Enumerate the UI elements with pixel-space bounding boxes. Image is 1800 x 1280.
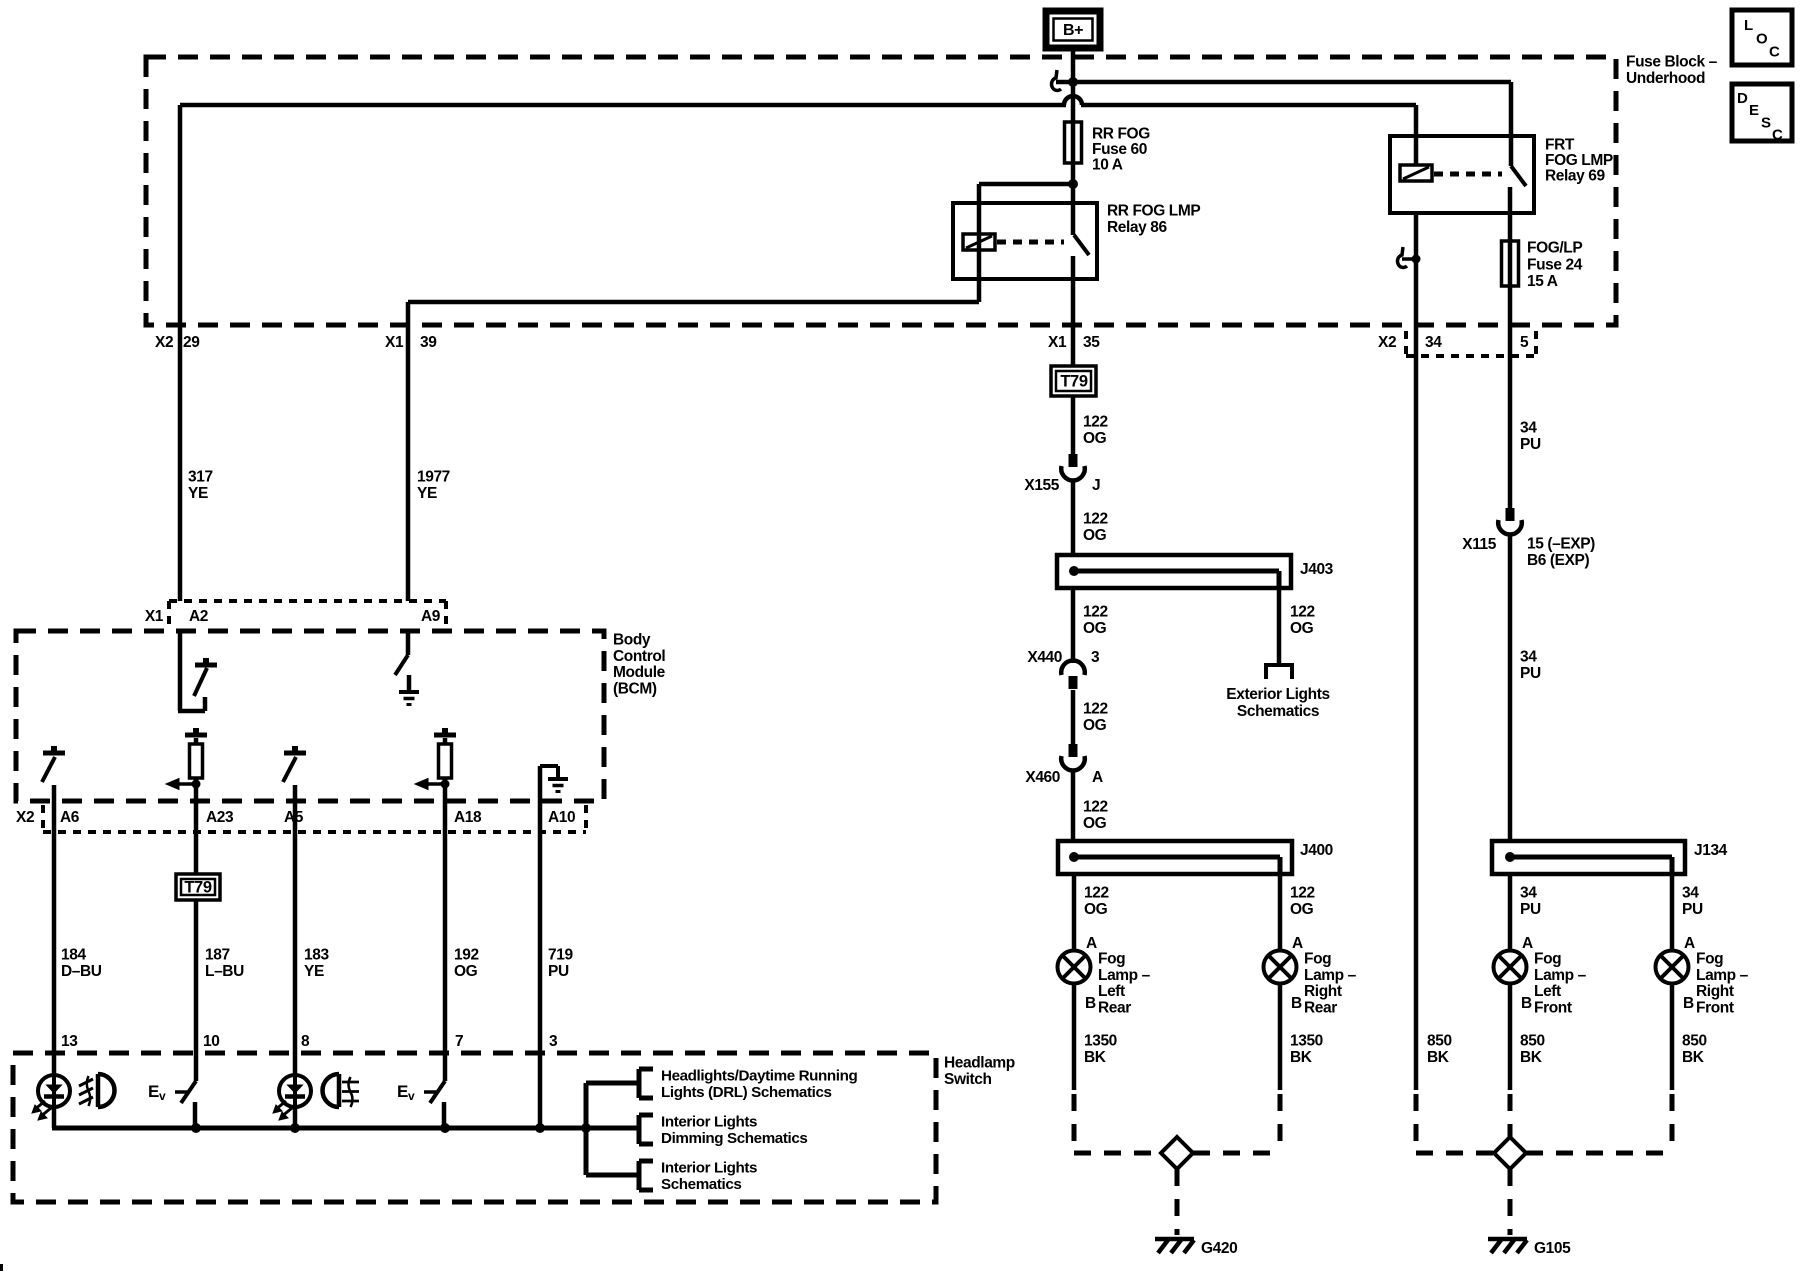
svg-text:A2: A2: [189, 608, 208, 625]
svg-text:29: 29: [183, 334, 200, 351]
svg-text:Lamp –: Lamp –: [1098, 967, 1151, 984]
svg-text:Left: Left: [1534, 983, 1561, 1000]
svg-text:34: 34: [1682, 885, 1699, 902]
svg-text:A: A: [1522, 935, 1533, 952]
svg-text:Exterior Lights: Exterior Lights: [1226, 686, 1329, 703]
svg-text:10 A: 10 A: [1092, 157, 1123, 174]
svg-text:RR FOG: RR FOG: [1092, 126, 1150, 143]
svg-text:PU: PU: [548, 963, 569, 980]
svg-text:Fuse 24: Fuse 24: [1527, 256, 1583, 273]
svg-text:D: D: [1737, 90, 1748, 107]
svg-text:13: 13: [61, 1033, 78, 1050]
svg-text:X1: X1: [385, 334, 404, 351]
svg-text:Fuse 60: Fuse 60: [1092, 141, 1147, 158]
svg-text:Dimming Schematics: Dimming Schematics: [661, 1130, 807, 1147]
svg-text:Fuse Block –: Fuse Block –: [1626, 54, 1718, 71]
svg-text:34: 34: [1520, 649, 1537, 666]
svg-text:L–BU: L–BU: [205, 963, 244, 980]
svg-text:E: E: [1749, 102, 1759, 119]
svg-text:OG: OG: [1290, 620, 1314, 637]
svg-text:T79: T79: [184, 879, 211, 897]
svg-text:RR FOG LMP: RR FOG LMP: [1107, 203, 1200, 220]
svg-text:Fog: Fog: [1534, 951, 1561, 968]
svg-text:Schematics: Schematics: [661, 1176, 741, 1193]
svg-text:184: 184: [61, 947, 86, 964]
svg-text:v: v: [159, 1089, 166, 1103]
svg-text:X2: X2: [1378, 334, 1396, 351]
svg-text:850: 850: [1682, 1033, 1707, 1050]
svg-text:122: 122: [1083, 701, 1108, 718]
svg-text:35: 35: [1083, 334, 1100, 351]
svg-text:317: 317: [188, 469, 213, 486]
svg-text:E: E: [397, 1082, 408, 1101]
svg-text:Body: Body: [613, 632, 651, 649]
svg-text:122: 122: [1083, 799, 1108, 816]
svg-text:1977: 1977: [417, 469, 450, 486]
svg-text:D–BU: D–BU: [61, 963, 102, 980]
svg-text:X1: X1: [145, 608, 164, 625]
svg-text:850: 850: [1520, 1033, 1545, 1050]
svg-text:A: A: [1684, 935, 1695, 952]
svg-text:FOG/LP: FOG/LP: [1527, 240, 1582, 257]
svg-text:YE: YE: [188, 485, 208, 502]
svg-text:PU: PU: [1520, 665, 1541, 682]
svg-text:BK: BK: [1682, 1049, 1705, 1066]
svg-text:YE: YE: [417, 485, 437, 502]
svg-text:Right: Right: [1696, 983, 1734, 1000]
svg-text:C: C: [1772, 127, 1783, 144]
svg-text:X440: X440: [1027, 649, 1062, 666]
svg-text:15 (–EXP): 15 (–EXP): [1527, 536, 1595, 553]
svg-text:192: 192: [454, 947, 479, 964]
svg-text:187: 187: [205, 947, 230, 964]
svg-text:BK: BK: [1290, 1049, 1313, 1066]
svg-text:Front: Front: [1696, 999, 1734, 1016]
svg-text:Interior Lights: Interior Lights: [661, 1114, 757, 1131]
svg-text:X155: X155: [1024, 477, 1059, 494]
svg-text:A18: A18: [454, 809, 482, 826]
svg-text:1350: 1350: [1084, 1033, 1117, 1050]
svg-text:Headlamp: Headlamp: [944, 1055, 1015, 1072]
svg-text:Headlights/Daytime Running: Headlights/Daytime Running: [661, 1068, 857, 1085]
svg-text:J134: J134: [1694, 842, 1728, 859]
svg-text:3: 3: [549, 1033, 558, 1050]
svg-text:183: 183: [304, 947, 329, 964]
svg-text:8: 8: [301, 1033, 310, 1050]
svg-text:YE: YE: [304, 963, 324, 980]
svg-text:A9: A9: [421, 608, 441, 625]
svg-text:Interior Lights: Interior Lights: [661, 1160, 757, 1177]
svg-text:OG: OG: [1083, 430, 1107, 447]
svg-text:10: 10: [203, 1033, 219, 1050]
svg-text:Control: Control: [613, 648, 665, 665]
svg-text:L: L: [1744, 17, 1753, 34]
svg-text:J400: J400: [1300, 842, 1333, 859]
svg-text:34: 34: [1520, 885, 1537, 902]
svg-text:OG: OG: [1083, 717, 1107, 734]
svg-text:PU: PU: [1520, 901, 1541, 918]
svg-text:122: 122: [1290, 885, 1315, 902]
svg-text:PU: PU: [1520, 436, 1541, 453]
svg-text:OG: OG: [1083, 815, 1107, 832]
svg-text:X2: X2: [16, 809, 34, 826]
svg-text:Switch: Switch: [944, 1071, 992, 1088]
svg-text:Right: Right: [1304, 983, 1342, 1000]
svg-text:BK: BK: [1084, 1049, 1107, 1066]
svg-text:122: 122: [1083, 414, 1108, 431]
svg-text:B: B: [1683, 995, 1694, 1012]
svg-text:Relay 69: Relay 69: [1545, 168, 1605, 185]
svg-text:A: A: [1292, 935, 1303, 952]
svg-text:O: O: [1756, 31, 1768, 48]
svg-text:Lamp –: Lamp –: [1304, 967, 1357, 984]
svg-text:OG: OG: [1290, 901, 1314, 918]
svg-text:Lamp –: Lamp –: [1534, 967, 1587, 984]
svg-text:34: 34: [1520, 420, 1537, 437]
svg-text:Lights (DRL) Schematics: Lights (DRL) Schematics: [661, 1084, 832, 1101]
svg-text:B: B: [1085, 995, 1096, 1012]
svg-text:122: 122: [1084, 885, 1109, 902]
svg-text:T79: T79: [1060, 373, 1087, 391]
svg-text:7: 7: [455, 1033, 463, 1050]
svg-text:X1: X1: [1048, 334, 1067, 351]
svg-text:39: 39: [420, 334, 437, 351]
svg-text:122: 122: [1083, 511, 1108, 528]
svg-text:PU: PU: [1682, 901, 1703, 918]
svg-text:A: A: [1092, 769, 1103, 786]
svg-text:5: 5: [1520, 334, 1529, 351]
svg-text:122: 122: [1083, 604, 1108, 621]
svg-text:B+: B+: [1063, 22, 1083, 39]
svg-text:Fog: Fog: [1098, 951, 1125, 968]
svg-text:Front: Front: [1534, 999, 1572, 1016]
svg-text:Fog: Fog: [1304, 951, 1331, 968]
svg-text:G105: G105: [1534, 1240, 1571, 1257]
svg-text:OG: OG: [1083, 527, 1107, 544]
svg-text:Module: Module: [613, 664, 666, 681]
svg-text:FOG LMP: FOG LMP: [1545, 152, 1613, 169]
svg-text:J403: J403: [1300, 561, 1334, 578]
svg-text:A23: A23: [206, 809, 234, 826]
svg-text:850: 850: [1427, 1033, 1452, 1050]
svg-text:E: E: [148, 1082, 159, 1101]
svg-text:G420: G420: [1201, 1240, 1237, 1257]
svg-text:Rear: Rear: [1304, 999, 1337, 1016]
svg-text:X2: X2: [155, 334, 173, 351]
svg-text:15 A: 15 A: [1527, 273, 1558, 290]
svg-text:OG: OG: [1083, 620, 1107, 637]
svg-text:B: B: [1521, 995, 1532, 1012]
svg-text:BK: BK: [1520, 1049, 1543, 1066]
svg-text:3: 3: [1091, 649, 1100, 666]
svg-text:Underhood: Underhood: [1626, 70, 1705, 87]
svg-text:(BCM): (BCM): [613, 680, 657, 697]
svg-text:Fog: Fog: [1696, 951, 1723, 968]
svg-text:B: B: [1291, 995, 1302, 1012]
svg-text:A10: A10: [548, 809, 575, 826]
svg-text:719: 719: [548, 947, 573, 964]
svg-text:A5: A5: [284, 809, 304, 826]
svg-text:X460: X460: [1025, 769, 1060, 786]
svg-text:122: 122: [1290, 604, 1315, 621]
svg-text:1350: 1350: [1290, 1033, 1323, 1050]
svg-text:B6 (EXP): B6 (EXP): [1527, 552, 1589, 569]
svg-text:X115: X115: [1462, 536, 1497, 553]
svg-text:Lamp –: Lamp –: [1696, 967, 1749, 984]
svg-text:OG: OG: [454, 963, 478, 980]
svg-text:v: v: [408, 1089, 415, 1103]
svg-text:BK: BK: [1427, 1049, 1450, 1066]
svg-text:J: J: [1092, 477, 1100, 494]
svg-text:34: 34: [1425, 334, 1442, 351]
svg-text:Relay 86: Relay 86: [1107, 219, 1167, 236]
svg-text:OG: OG: [1084, 901, 1108, 918]
svg-text:A6: A6: [60, 809, 80, 826]
svg-text:Rear: Rear: [1098, 999, 1131, 1016]
svg-text:S: S: [1761, 115, 1771, 132]
svg-text:FRT: FRT: [1545, 137, 1575, 154]
svg-text:A: A: [1086, 935, 1097, 952]
svg-text:C: C: [1769, 44, 1780, 61]
svg-text:Left: Left: [1098, 983, 1125, 1000]
svg-text:Schematics: Schematics: [1237, 703, 1319, 720]
